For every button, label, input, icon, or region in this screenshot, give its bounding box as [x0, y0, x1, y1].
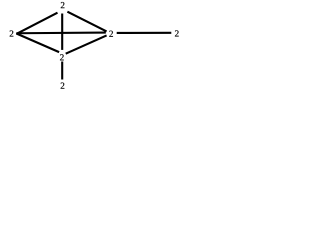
wire edge C-B [66, 35, 107, 53]
wire edge C-R [117, 32, 172, 34]
node B2 label 2 [61, 83, 65, 89]
node L label 2 [10, 30, 14, 36]
wire edge L-B [16, 33, 59, 52]
wire edge T-B [61, 14, 63, 50]
node R label 2 [175, 30, 179, 36]
wire edge T-L [16, 13, 57, 34]
wire edge L-C [16, 32, 105, 35]
wire edge T-C [67, 12, 106, 32]
node C label 2 [109, 31, 113, 37]
node B label 2 [60, 54, 64, 60]
wire edge B-B2 [61, 62, 63, 80]
node T label 2 [61, 2, 65, 8]
